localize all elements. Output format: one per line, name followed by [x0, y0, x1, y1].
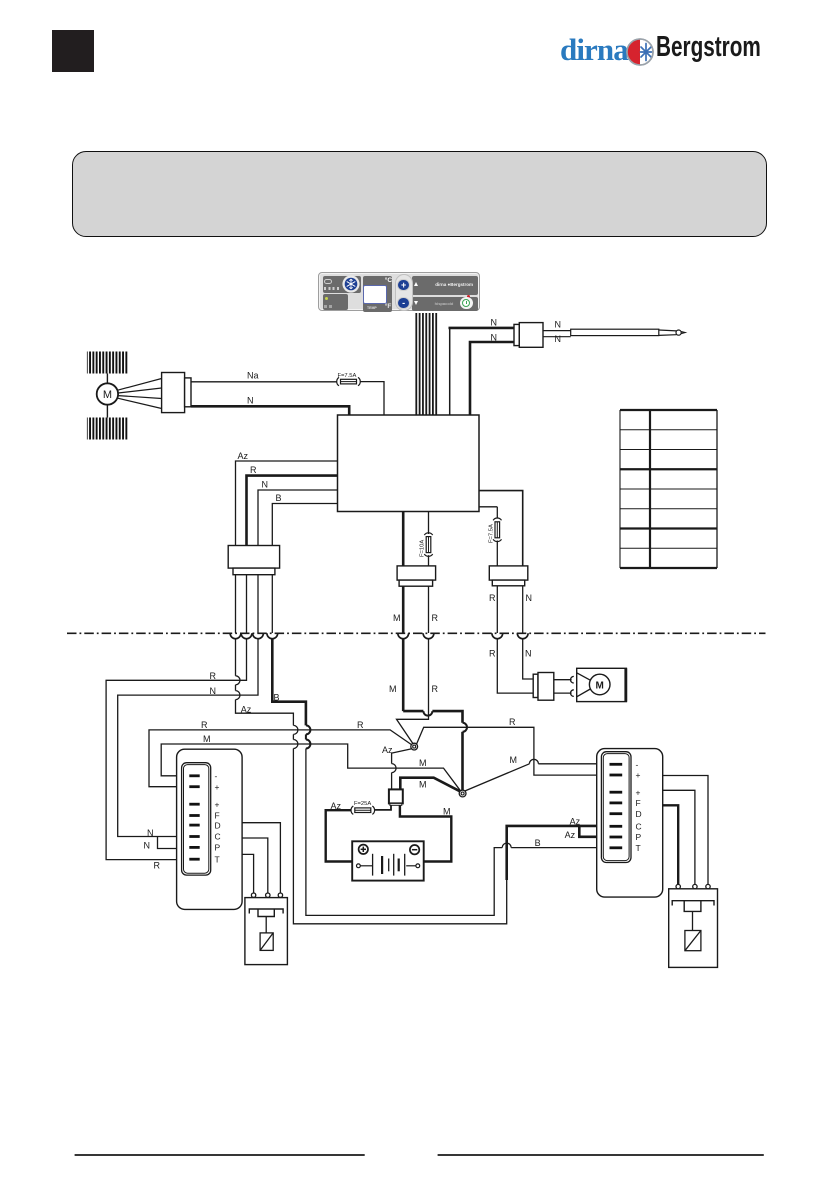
- svg-text:F=10A: F=10A: [420, 540, 426, 557]
- svg-text:D: D: [215, 820, 221, 830]
- svg-text:M: M: [203, 734, 211, 744]
- svg-text:-: -: [636, 760, 639, 770]
- svg-text:R: R: [210, 671, 217, 681]
- svg-text:R: R: [250, 465, 257, 475]
- svg-text:R: R: [432, 613, 439, 623]
- svg-text:R: R: [489, 649, 496, 659]
- svg-text:C: C: [215, 832, 221, 842]
- svg-text:+: +: [636, 770, 641, 780]
- svg-text:-: -: [215, 771, 218, 781]
- svg-text:N: N: [210, 686, 217, 696]
- svg-text:N: N: [491, 333, 498, 343]
- svg-text:M: M: [510, 755, 518, 765]
- svg-text:D: D: [636, 809, 642, 819]
- svg-text:R: R: [357, 720, 364, 730]
- svg-text:B: B: [274, 692, 280, 702]
- svg-text:M: M: [389, 684, 397, 694]
- svg-text:F=7.5A: F=7.5A: [488, 524, 494, 543]
- svg-text:C: C: [636, 822, 642, 832]
- svg-text:N: N: [491, 318, 498, 328]
- svg-text:F=7.5A: F=7.5A: [338, 373, 357, 379]
- svg-text:N: N: [555, 334, 562, 344]
- svg-text:T: T: [636, 843, 641, 853]
- svg-text:N: N: [555, 320, 562, 330]
- svg-text:R: R: [509, 717, 516, 727]
- svg-text:N: N: [144, 840, 151, 850]
- svg-text:M: M: [103, 389, 112, 401]
- svg-text:N: N: [247, 396, 254, 406]
- svg-text:M: M: [596, 680, 604, 691]
- svg-text:Az: Az: [241, 704, 252, 714]
- svg-text:+: +: [215, 799, 220, 809]
- svg-text:Az: Az: [331, 801, 342, 811]
- svg-text:M: M: [419, 758, 427, 768]
- svg-text:N: N: [525, 649, 532, 659]
- svg-text:R: R: [154, 861, 161, 871]
- svg-text:M: M: [393, 613, 401, 623]
- svg-text:B: B: [535, 838, 541, 848]
- svg-text:Az: Az: [238, 451, 249, 461]
- svg-text:N: N: [526, 593, 533, 603]
- svg-text:Az: Az: [382, 745, 393, 755]
- svg-text:F=25A: F=25A: [354, 801, 371, 807]
- svg-text:Az: Az: [565, 830, 576, 840]
- svg-text:F: F: [215, 811, 220, 821]
- svg-text:+: +: [215, 782, 220, 792]
- svg-text:+: +: [636, 787, 641, 797]
- svg-text:P: P: [636, 832, 642, 842]
- svg-text:T: T: [215, 854, 220, 864]
- svg-text:R: R: [489, 593, 496, 603]
- svg-text:F: F: [636, 798, 641, 808]
- svg-text:N: N: [147, 828, 154, 838]
- svg-text:R: R: [201, 720, 208, 730]
- svg-text:Na: Na: [247, 370, 259, 380]
- svg-text:P: P: [215, 843, 221, 853]
- svg-text:R: R: [432, 684, 439, 694]
- svg-text:Az: Az: [570, 816, 581, 826]
- svg-text:M: M: [443, 807, 451, 817]
- svg-text:B: B: [276, 493, 282, 503]
- svg-text:N: N: [262, 480, 269, 490]
- svg-text:M: M: [419, 779, 427, 789]
